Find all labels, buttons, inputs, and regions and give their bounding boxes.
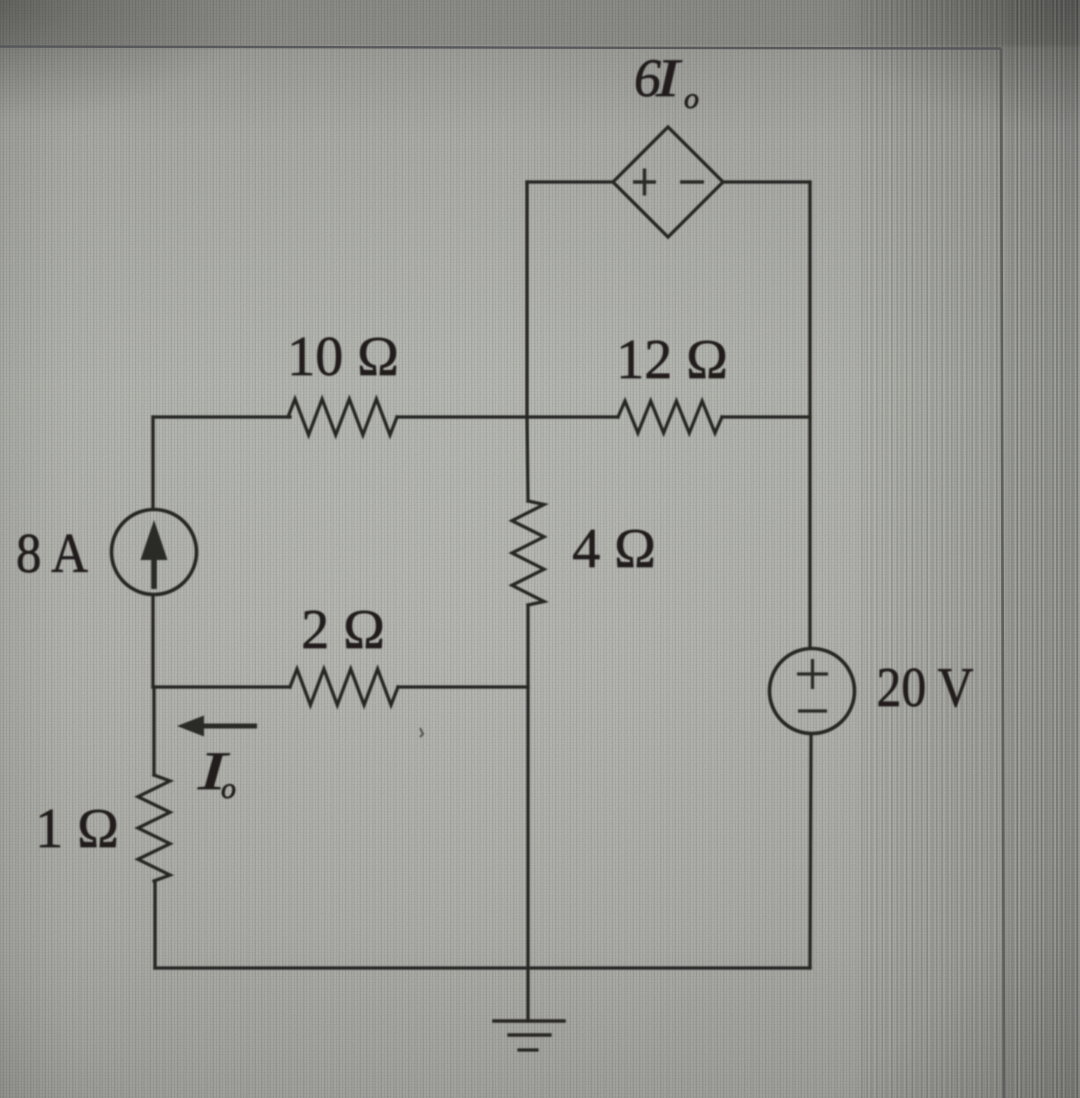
ground stem <box>526 968 529 1021</box>
wire diamond row right <box>723 180 810 183</box>
voltage source circle 20V <box>770 649 855 734</box>
wire 2ohm row right (to middle rail) <box>398 685 528 688</box>
wire middle rail lower (4ohm to bottom rail) <box>526 605 529 968</box>
ground bar 1 <box>494 1019 564 1023</box>
dependent source diamond 6Io <box>613 127 723 237</box>
20V plus sign <box>797 659 828 689</box>
20V minus sign <box>798 709 827 712</box>
photo speck <box>420 728 423 737</box>
wire bottom rail <box>155 966 810 969</box>
svg-text:2 Ω: 2 Ω <box>301 599 385 661</box>
resistor R 2ohm <box>290 669 398 705</box>
resistor R 10ohm <box>288 399 397 435</box>
page top border <box>0 47 1001 49</box>
wire left rail (8A source to 2ohm node) <box>151 595 154 687</box>
minus sign inside diamond <box>680 180 704 183</box>
svg-text:1 Ω: 1 Ω <box>35 798 119 860</box>
plus sign inside diamond <box>633 169 656 196</box>
page right border <box>1001 49 1004 1098</box>
svg-text:10 Ω: 10 Ω <box>287 326 399 388</box>
wire top row left (node A to 10ohm) <box>153 415 290 418</box>
wire top row right (12ohm to right rail) <box>722 415 810 418</box>
wire 2ohm row left <box>153 685 290 688</box>
wire right rail lower (20V to bottom rail) <box>810 734 811 968</box>
wire left rail (2ohm node to 1ohm top) <box>152 687 155 775</box>
svg-text:o: o <box>221 772 236 805</box>
wire top row middle (10ohm to 12ohm across node B) <box>397 415 618 418</box>
resistor R 1ohm <box>138 775 170 881</box>
wire middle rail upper (diamond row to node B) <box>527 182 528 501</box>
svg-text:20 V: 20 V <box>877 657 974 719</box>
ground bar 3 <box>519 1048 537 1051</box>
svg-text:o: o <box>684 82 699 115</box>
resistor R 4ohm <box>512 501 544 605</box>
wire left rail top (node A to 8A source) <box>151 417 154 509</box>
svg-text:4 Ω: 4 Ω <box>572 518 656 580</box>
svg-text:8 A: 8 A <box>16 523 88 585</box>
wire diamond row left <box>527 180 613 183</box>
8A source arrow <box>141 520 168 589</box>
current source circle 8A <box>112 510 197 595</box>
wire right rail upper (diamond to 20V) <box>808 182 811 648</box>
resistor R 12ohm <box>618 401 722 433</box>
Io current arrow <box>177 716 257 737</box>
wire left rail bottom (1ohm bottom to bottom rail) <box>153 881 156 968</box>
ground bar 2 <box>509 1033 550 1036</box>
svg-text:I: I <box>655 48 683 108</box>
svg-text:12 Ω: 12 Ω <box>616 329 728 391</box>
